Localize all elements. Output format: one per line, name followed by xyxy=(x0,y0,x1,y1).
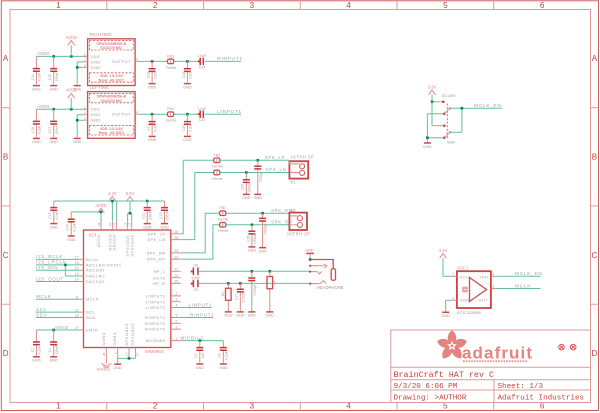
ground xyxy=(32,86,41,92)
svg-text:GND: GND xyxy=(91,59,101,64)
ground xyxy=(160,224,169,230)
svg-text:C17: C17 xyxy=(48,127,52,133)
svg-text:JSTPH 2P: JSTPH 2P xyxy=(287,231,311,236)
svg-text:Ferrite: Ferrite xyxy=(212,177,222,181)
wire MCLK xyxy=(36,294,79,299)
wire MCLK_EN from switch xyxy=(450,108,502,132)
svg-text:8.2uF: 8.2uF xyxy=(38,126,42,134)
svg-text:8.2uF: 8.2uF xyxy=(225,351,229,359)
IC3 left pin numbers xyxy=(75,256,79,331)
svg-text:1: 1 xyxy=(84,53,86,57)
wire SPK_RN to FB7 xyxy=(181,213,220,253)
wire VMID xyxy=(36,325,79,330)
capacitor C5 series xyxy=(191,280,198,292)
junction xyxy=(261,212,264,215)
svg-text:22: 22 xyxy=(175,255,179,259)
svg-text:C12: C12 xyxy=(159,212,163,218)
ferrite FB7 xyxy=(218,206,228,221)
svg-text:Ferrite: Ferrite xyxy=(218,217,228,221)
svg-text:OUTPUT: OUTPUT xyxy=(112,112,131,117)
junction xyxy=(129,212,132,215)
svg-text:100nF: 100nF xyxy=(165,211,169,220)
capacitor C16h xyxy=(248,271,256,311)
title block xyxy=(391,330,591,403)
svg-text:Temp: -40-100'C: Temp: -40-100'C xyxy=(98,131,125,135)
junction xyxy=(245,171,248,174)
svg-text:SPK_LP: SPK_LP xyxy=(147,231,165,236)
svg-text:4: 4 xyxy=(346,402,351,411)
ground xyxy=(248,247,257,253)
wire osc gnd xyxy=(446,300,452,312)
svg-text:SPK_LP: SPK_LP xyxy=(265,155,286,160)
svg-text:RINPUT1: RINPUT1 xyxy=(190,312,215,317)
ground xyxy=(258,248,267,254)
svg-text:3: 3 xyxy=(84,64,86,68)
capacitor C11 xyxy=(142,201,153,223)
svg-text:1: 1 xyxy=(56,402,61,411)
svg-text:1000pF: 1000pF xyxy=(247,181,251,192)
svg-text:SILICON MIC: SILICON MIC xyxy=(100,99,122,103)
svg-text:DBVDD: DBVDD xyxy=(112,234,117,250)
connector X1 JSTPH 2P xyxy=(289,154,314,184)
ground xyxy=(49,138,58,144)
svg-text:C23: C23 xyxy=(199,118,206,122)
wire mic1 output xyxy=(139,60,167,62)
svg-text:LINPUT3: LINPUT3 xyxy=(146,294,166,299)
wire SPK_LN to FB8 xyxy=(181,173,214,240)
svg-text:1000pF: 1000pF xyxy=(259,171,263,182)
svg-text:A: A xyxy=(592,54,598,63)
supply AVDD codec arrow xyxy=(95,203,106,230)
svg-text:20: 20 xyxy=(175,274,179,278)
svg-text:AGND: AGND xyxy=(101,332,106,345)
capacitor C17h xyxy=(235,283,246,311)
capacitor C7 xyxy=(31,330,42,356)
capacitor C27 xyxy=(259,213,268,247)
svg-text:SCL: SCL xyxy=(86,310,96,315)
wire to RINPUT1 xyxy=(205,60,241,62)
svg-text:C18: C18 xyxy=(182,72,186,78)
frame column ticks top xyxy=(107,1,494,10)
svg-text:C17: C17 xyxy=(235,294,239,300)
ferrite FB9 xyxy=(212,153,222,168)
junction xyxy=(76,66,79,69)
adafruit logo center star xyxy=(447,341,457,351)
svg-text:MCLK_EN: MCLK_EN xyxy=(474,103,502,109)
ground xyxy=(224,312,233,318)
svg-text:SPK_LN: SPK_LN xyxy=(266,167,287,172)
ground xyxy=(49,86,58,92)
ground xyxy=(248,312,257,318)
wire HP_R xyxy=(199,282,310,284)
svg-text:BrainCraft HAT rev C: BrainCraft HAT rev C xyxy=(394,370,495,380)
junction xyxy=(52,55,55,58)
svg-text:MCLK: MCLK xyxy=(36,294,52,299)
ground xyxy=(113,364,122,370)
capacitor C24 series xyxy=(197,54,207,69)
junction xyxy=(309,258,312,261)
svg-text:Ferrite: Ferrite xyxy=(218,229,228,233)
svg-text:SPKVDD2: SPKVDD2 xyxy=(129,235,134,257)
ground xyxy=(183,136,192,142)
svg-text:OUTPUT: OUTPUT xyxy=(112,59,131,64)
svg-text:SDA: SDA xyxy=(86,315,96,320)
svg-text:HP_R: HP_R xyxy=(153,281,166,286)
svg-text:3.3V: 3.3V xyxy=(428,85,437,90)
svg-text:C25: C25 xyxy=(241,184,245,190)
ground xyxy=(148,84,157,90)
svg-text:RINPUT3: RINPUT3 xyxy=(145,327,166,332)
svg-text:SPK_RN: SPK_RN xyxy=(147,251,166,256)
wire fb4 to c23 xyxy=(174,113,200,115)
capacitor C17 xyxy=(48,109,59,137)
capacitor C23 series xyxy=(197,107,207,122)
oscillator pin stubs xyxy=(451,273,496,301)
junction xyxy=(70,55,73,58)
svg-text:2: 2 xyxy=(452,296,454,300)
svg-text:AVDD: AVDD xyxy=(95,203,106,208)
ground xyxy=(143,224,152,230)
junction xyxy=(186,113,189,116)
svg-text:ADCDAT: ADCDAT xyxy=(86,268,105,273)
svg-text:FB3: FB3 xyxy=(167,54,174,58)
svg-text:100nF: 100nF xyxy=(55,125,59,134)
wire 3.3V rail xyxy=(54,200,165,202)
svg-text:LINPUT1: LINPUT1 xyxy=(217,109,242,115)
svg-text:9/3/20 6:06 PM: 9/3/20 6:06 PM xyxy=(394,383,458,391)
capacitor C25 xyxy=(241,173,252,195)
IC3 right pin stubs xyxy=(171,234,181,341)
ground xyxy=(236,312,245,318)
wire mic1 gnd pins xyxy=(77,62,83,85)
wire SPKVDD branch xyxy=(128,213,132,222)
svg-text:C: C xyxy=(592,251,598,260)
frame row labels left xyxy=(3,54,9,358)
svg-text:B: B xyxy=(3,153,8,162)
svg-text:C7: C7 xyxy=(31,348,35,352)
svg-text:1.0uF: 1.0uF xyxy=(197,54,207,58)
svg-text:25: 25 xyxy=(175,236,179,240)
wire AVDD rail2 xyxy=(71,211,101,213)
svg-text:JSTPH 2P: JSTPH 2P xyxy=(290,154,314,159)
supply 5.0V codec xyxy=(126,191,135,213)
junction xyxy=(251,224,254,227)
IC3 top pin stubs xyxy=(97,222,132,230)
svg-text:3: 3 xyxy=(250,1,255,10)
svg-text:RINPUT1: RINPUT1 xyxy=(217,56,242,62)
svg-text:28: 28 xyxy=(97,222,101,226)
svg-text:OUT: OUT xyxy=(478,298,488,303)
svg-text:VCC: VCC xyxy=(460,275,470,280)
wire FB7 to X5 xyxy=(226,212,290,214)
svg-text:I2S_DIN: I2S_DIN xyxy=(36,265,58,270)
ground xyxy=(73,138,82,144)
svg-text:Drawing: >AUTHOR: Drawing: >AUTHOR xyxy=(394,394,467,402)
svg-text:3.3nF: 3.3nF xyxy=(153,124,157,132)
svg-text:BCLK: BCLK xyxy=(86,257,98,262)
junction xyxy=(52,329,55,332)
svg-text:2: 2 xyxy=(153,402,158,411)
svg-text:3.3V: 3.3V xyxy=(439,248,448,253)
svg-text:Temp: -40-100'C: Temp: -40-100'C xyxy=(98,78,125,82)
frame row ticks right xyxy=(591,108,599,305)
mic MK2 LEFTMIC xyxy=(88,85,136,138)
svg-text:ECS-3225MV: ECS-3225MV xyxy=(457,310,482,315)
resistor R4 xyxy=(221,283,231,311)
frame column ticks bottom xyxy=(107,403,494,411)
svg-text:8.2uF: 8.2uF xyxy=(72,223,76,231)
svg-text:1uF: 1uF xyxy=(201,353,205,359)
junction xyxy=(251,270,254,273)
svg-text:C15: C15 xyxy=(48,74,52,80)
junction xyxy=(111,200,114,203)
svg-text:X1: X1 xyxy=(290,180,296,185)
svg-text:AVDD: AVDD xyxy=(66,35,77,40)
svg-text:HP_L: HP_L xyxy=(154,269,166,274)
svg-text:C10: C10 xyxy=(66,224,70,230)
wire switch left xyxy=(427,102,443,143)
svg-text:INH: INH xyxy=(480,275,488,280)
svg-text:AGND2: AGND2 xyxy=(97,367,112,372)
svg-text:LINPUT1: LINPUT1 xyxy=(189,302,213,307)
mic MK2 pin stubs xyxy=(84,105,140,120)
svg-text:adafruit: adafruit xyxy=(462,344,532,363)
wire I2S_BCLK xyxy=(36,254,79,259)
capacitor C14 xyxy=(31,56,42,84)
junction xyxy=(239,282,242,285)
junction xyxy=(186,60,189,63)
svg-text:3.3V: 3.3V xyxy=(108,191,117,196)
svg-text:2700pF: 2700pF xyxy=(253,284,257,295)
svg-text:3: 3 xyxy=(176,298,178,302)
IC3 right pin numbers xyxy=(175,230,179,341)
svg-text:C1: C1 xyxy=(48,348,52,352)
capacitor C8 xyxy=(218,341,229,364)
svg-text:OUT3: OUT3 xyxy=(153,275,166,280)
wire FB6 to X5 xyxy=(226,224,290,226)
svg-text:26: 26 xyxy=(175,230,179,234)
svg-text:28: 28 xyxy=(102,352,106,356)
svg-text:23: 23 xyxy=(175,249,179,253)
capacitor C6 series xyxy=(191,264,201,280)
capacitor C22 xyxy=(254,160,263,194)
svg-text:DACLRC: DACLRC xyxy=(86,273,105,278)
svg-text:1.0uF: 1.0uF xyxy=(191,276,201,280)
ground headphone top xyxy=(305,248,314,259)
svg-text:HEADPHONE: HEADPHONE xyxy=(317,285,344,290)
svg-text:13: 13 xyxy=(135,352,139,356)
svg-text:2: 2 xyxy=(84,58,86,62)
oscillator OSC1 ECS-3225MV xyxy=(457,266,491,316)
svg-text:C5: C5 xyxy=(193,288,198,292)
frame row ticks left xyxy=(1,108,10,305)
capacitor C20 xyxy=(182,114,193,135)
svg-text:Sheet: 1/3: Sheet: 1/3 xyxy=(498,383,544,391)
svg-text:SPK_LN: SPK_LN xyxy=(147,237,165,242)
svg-text:4: 4 xyxy=(346,1,351,10)
adafruit logo url dashes xyxy=(463,360,528,362)
ferrite FB4 xyxy=(166,107,176,122)
svg-text:WM8960: WM8960 xyxy=(145,349,164,354)
node AVDD rail left mic xyxy=(36,104,87,109)
svg-text:VDD: VDD xyxy=(91,107,101,112)
ferrite FB6 xyxy=(218,223,228,234)
svg-text:DGND: DGND xyxy=(112,332,117,346)
capacitor C18 xyxy=(182,61,193,82)
wire HP_L xyxy=(199,270,310,272)
frame row labels right xyxy=(592,54,598,358)
svg-text:SPKGND2: SPKGND2 xyxy=(130,323,135,345)
svg-text:6: 6 xyxy=(176,320,178,324)
svg-text:GND: GND xyxy=(305,248,314,252)
svg-text:3.3nF: 3.3nF xyxy=(189,71,193,79)
svg-text:SILICON MIC: SILICON MIC xyxy=(100,46,122,50)
svg-text:3: 3 xyxy=(84,116,86,120)
ground xyxy=(50,224,59,230)
svg-text:EG1390: EG1390 xyxy=(442,94,455,98)
svg-text:Ferrite: Ferrite xyxy=(166,119,176,123)
junction xyxy=(76,119,79,122)
capacitor C12 xyxy=(159,201,169,223)
junction xyxy=(269,270,272,273)
wire DBVDD branch xyxy=(116,201,118,222)
IC3 left pin names xyxy=(86,257,122,333)
svg-text:C6: C6 xyxy=(193,264,198,268)
supply AVDD arrow xyxy=(66,35,77,57)
logo registration marks xyxy=(559,344,576,350)
junction xyxy=(64,264,67,267)
wire mic2 output xyxy=(139,113,167,115)
svg-text:AVDD: AVDD xyxy=(96,234,101,247)
capacitor C21 xyxy=(147,114,158,135)
svg-text:C16: C16 xyxy=(31,127,35,133)
svg-text:C2: C2 xyxy=(194,353,198,357)
svg-text:9: 9 xyxy=(113,352,117,354)
svg-text:VDD: 1.5-3.6V: VDD: 1.5-3.6V xyxy=(100,74,124,78)
svg-text:SDA: SDA xyxy=(36,312,48,317)
capacitor C1 xyxy=(48,330,59,356)
svg-text:1.0uF: 1.0uF xyxy=(197,107,207,111)
wire I2S_LRCLK xyxy=(36,260,79,276)
svg-text:MCLK_EN: MCLK_EN xyxy=(515,271,543,277)
supply 3.3V codec xyxy=(108,191,117,222)
wire SDA xyxy=(36,312,79,317)
svg-text:GND: GND xyxy=(91,112,101,117)
svg-text:1000pF: 1000pF xyxy=(253,233,257,244)
svg-text:ADCLRC/GPIO1: ADCLRC/GPIO1 xyxy=(86,262,122,267)
ferrite FB8 xyxy=(212,170,222,181)
svg-text:RINPUT2: RINPUT2 xyxy=(145,321,166,326)
ground xyxy=(67,236,76,242)
svg-text:D: D xyxy=(3,349,9,358)
svg-text:Adafruit Industries: Adafruit Industries xyxy=(498,394,585,402)
svg-text:C20: C20 xyxy=(182,125,186,131)
ground AGND2 xyxy=(97,364,112,372)
svg-text:R6: R6 xyxy=(272,280,276,284)
svg-text:5: 5 xyxy=(443,1,448,10)
svg-text:5.0V: 5.0V xyxy=(126,191,135,196)
ground xyxy=(196,364,205,370)
supply 3.3V oscillator xyxy=(439,248,452,276)
svg-text:I2S_DOUT: I2S_DOUT xyxy=(36,276,64,281)
wire fb3 to c24 xyxy=(174,60,200,62)
svg-text:R4: R4 xyxy=(221,292,225,296)
svg-text:1: 1 xyxy=(84,105,86,109)
svg-text:8.2uF: 8.2uF xyxy=(38,73,42,81)
junction xyxy=(461,107,464,110)
wire SPK_LP to FB9 xyxy=(181,160,214,234)
svg-text:21: 21 xyxy=(175,268,179,272)
wire to LINPUT1 xyxy=(205,113,241,115)
connector HEADPHONE jack xyxy=(309,260,344,291)
wire I2S_DIN xyxy=(36,265,79,270)
svg-text:VMID: VMID xyxy=(55,325,69,330)
IC3 bottom pin names xyxy=(101,323,135,345)
junction xyxy=(151,113,154,116)
svg-text:I2S_BCLK: I2S_BCLK xyxy=(36,254,63,259)
svg-text:GND: GND xyxy=(91,118,101,123)
svg-text:Ferrite: Ferrite xyxy=(166,66,176,70)
ground xyxy=(441,312,450,318)
svg-text:C26: C26 xyxy=(246,235,250,241)
svg-text:6: 6 xyxy=(540,1,545,10)
svg-text:AVDD: AVDD xyxy=(66,88,77,93)
svg-text:2: 2 xyxy=(176,292,178,296)
ground xyxy=(242,194,251,200)
svg-text:FB9: FB9 xyxy=(214,153,221,157)
frame column labels bottom xyxy=(56,402,545,411)
junction xyxy=(257,159,260,162)
svg-text:1000pF: 1000pF xyxy=(264,223,268,234)
connector X5 JSTPH 2P xyxy=(287,208,311,236)
svg-text:SCL: SCL xyxy=(36,307,47,312)
junction xyxy=(70,108,73,111)
junction xyxy=(52,108,55,111)
svg-text:RINPUT1: RINPUT1 xyxy=(145,315,166,320)
wire MCLK osc xyxy=(497,283,541,289)
svg-text:GND: GND xyxy=(91,65,101,70)
supply 3.3V switch xyxy=(428,85,437,102)
svg-text:SPK_RP: SPK_RP xyxy=(147,257,166,262)
svg-text:3.3nF: 3.3nF xyxy=(189,124,193,132)
svg-text:C: C xyxy=(3,251,9,260)
supply AVDD arrow xyxy=(66,88,77,110)
svg-text:12: 12 xyxy=(128,222,132,226)
ground xyxy=(32,357,41,363)
ground xyxy=(219,364,228,370)
svg-text:8.2uF: 8.2uF xyxy=(55,211,59,219)
op-amp IC3 WM8960 body xyxy=(84,230,171,354)
svg-text:C11: C11 xyxy=(142,213,146,219)
svg-text:VDD: VDD xyxy=(91,54,101,59)
capacitor C15 xyxy=(48,56,59,84)
capacitor C16 xyxy=(31,109,42,137)
capacitor C2 xyxy=(194,341,205,364)
capacitor C13 xyxy=(48,201,59,223)
svg-text:3: 3 xyxy=(250,402,255,411)
junction xyxy=(431,101,434,104)
svg-text:1: 1 xyxy=(452,273,454,277)
switch SWA EG1390 xyxy=(432,94,455,144)
ferrite FB3 xyxy=(166,54,176,69)
svg-text:4: 4 xyxy=(136,110,138,114)
svg-text:SWA: SWA xyxy=(447,140,456,144)
svg-text:LEFTMIC: LEFTMIC xyxy=(90,85,110,90)
ground xyxy=(148,136,157,142)
svg-text:GND: GND xyxy=(460,298,470,303)
svg-text:100nF: 100nF xyxy=(55,72,59,81)
svg-text:2700pF: 2700pF xyxy=(241,291,245,302)
